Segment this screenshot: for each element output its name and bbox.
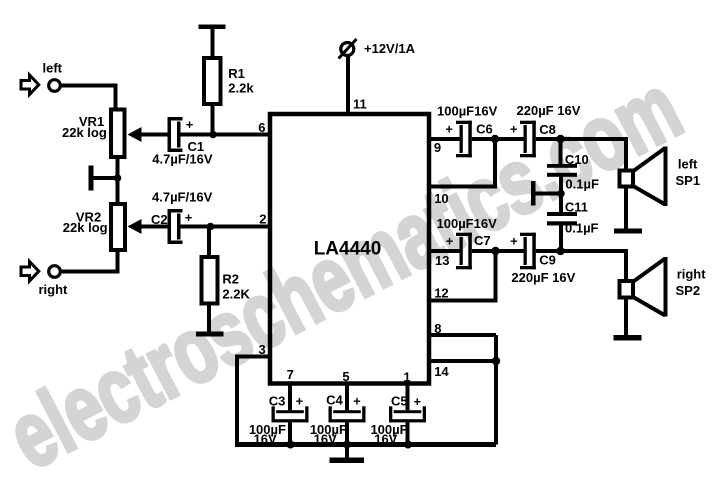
svg-text:+: +	[446, 233, 454, 248]
svg-text:11: 11	[353, 96, 367, 111]
svg-text:220µF 16V: 220µF 16V	[511, 270, 575, 285]
svg-text:2.2K: 2.2K	[222, 286, 250, 301]
svg-text:16V: 16V	[374, 431, 397, 446]
svg-text:9: 9	[434, 140, 441, 155]
svg-text:22k log: 22k log	[63, 220, 108, 235]
svg-text:R1: R1	[228, 66, 245, 81]
svg-text:+: +	[445, 121, 453, 136]
svg-text:22k log: 22k log	[62, 125, 107, 140]
svg-text:R2: R2	[222, 271, 239, 286]
svg-text:LA4440: LA4440	[314, 239, 382, 260]
svg-text:4.7µF/16V: 4.7µF/16V	[152, 189, 213, 204]
svg-text:16V: 16V	[254, 431, 277, 446]
svg-text:+: +	[186, 117, 194, 132]
svg-text:+: +	[510, 233, 518, 248]
svg-text:C9: C9	[539, 252, 556, 267]
svg-text:+: +	[296, 394, 304, 409]
svg-text:1: 1	[403, 370, 410, 385]
svg-text:right: right	[677, 266, 707, 281]
svg-text:SP2: SP2	[676, 283, 701, 298]
svg-text:2.2k: 2.2k	[228, 81, 254, 96]
svg-text:8: 8	[434, 321, 441, 336]
svg-text:C4: C4	[326, 392, 343, 407]
svg-text:C5: C5	[391, 394, 408, 409]
svg-text:+: +	[414, 394, 422, 409]
svg-text:C10: C10	[565, 152, 589, 167]
svg-text:C11: C11	[565, 199, 588, 214]
svg-text:C7: C7	[474, 233, 491, 248]
svg-text:C6: C6	[476, 121, 493, 136]
svg-text:+: +	[185, 210, 193, 225]
svg-text:2: 2	[259, 212, 266, 227]
svg-text:right: right	[39, 282, 69, 297]
svg-text:0.1µF: 0.1µF	[565, 177, 599, 192]
svg-text:C8: C8	[539, 122, 556, 137]
svg-text:5: 5	[342, 369, 349, 384]
svg-text:13: 13	[435, 253, 449, 268]
svg-text:4.7µF/16V: 4.7µF/16V	[152, 151, 213, 166]
svg-text:220µF 16V: 220µF 16V	[517, 103, 581, 118]
svg-text:+: +	[510, 121, 518, 136]
svg-text:16V: 16V	[314, 431, 337, 446]
svg-text:SP1: SP1	[676, 173, 701, 188]
svg-text:6: 6	[258, 120, 265, 135]
svg-text:C3: C3	[269, 394, 286, 409]
svg-text:10: 10	[434, 191, 448, 206]
svg-text:12: 12	[434, 286, 448, 301]
svg-text:left: left	[678, 157, 698, 172]
svg-text:100µF16V: 100µF16V	[437, 104, 498, 119]
svg-text:+: +	[353, 394, 361, 409]
svg-text:left: left	[43, 61, 63, 76]
svg-text:7: 7	[287, 367, 294, 382]
svg-text:14: 14	[434, 364, 449, 379]
svg-text:C2: C2	[151, 212, 168, 227]
svg-text:100µF16V: 100µF16V	[437, 216, 498, 231]
svg-text:+12V/1A: +12V/1A	[364, 41, 416, 56]
svg-text:0.1µF: 0.1µF	[565, 221, 599, 236]
